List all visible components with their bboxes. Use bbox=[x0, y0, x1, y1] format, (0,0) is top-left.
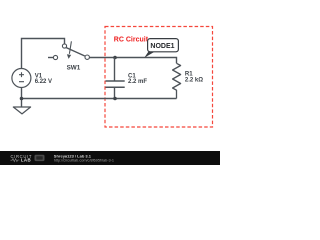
junction node bottom bbox=[113, 97, 117, 101]
pivot contact bbox=[62, 44, 66, 48]
svg-text:6.22 V: 6.22 V bbox=[35, 79, 52, 85]
ground bbox=[21, 99, 23, 107]
wire V1 bottom bbox=[21, 88, 23, 99]
left throw contact bbox=[53, 55, 57, 59]
svg-text:http://circuitlab.com/c/8f695f: http://circuitlab.com/c/8f695f/lab-3-1 bbox=[54, 158, 114, 162]
annotation box RC Circuit (red dashed) bbox=[105, 27, 213, 128]
voltage source V1 bbox=[12, 69, 31, 88]
right contact bbox=[85, 55, 89, 59]
svg-text:SW1: SW1 bbox=[67, 64, 81, 71]
junction bottom-left bbox=[20, 97, 24, 101]
junction node top bbox=[113, 56, 117, 60]
svg-text:LAB: LAB bbox=[21, 157, 31, 162]
actuator arrow bbox=[69, 41, 71, 54]
svg-text:NODE1: NODE1 bbox=[150, 43, 174, 50]
wire top-left (V1 top to switch pivot) bbox=[22, 39, 65, 69]
footer bar bbox=[0, 151, 220, 165]
svg-text:RC Circuit: RC Circuit bbox=[114, 37, 149, 44]
node label NODE1 tail bbox=[144, 51, 156, 58]
left throw stub bbox=[48, 57, 53, 59]
wire bottom rail bbox=[22, 98, 177, 100]
node label NODE1 box bbox=[148, 39, 179, 52]
wire C1 bottom bbox=[114, 87, 116, 98]
wire top rail (switch to R1) bbox=[89, 58, 176, 64]
svg-text:2.2 mF: 2.2 mF bbox=[128, 79, 147, 85]
circuitlab logo resistor zigzag bbox=[11, 159, 20, 162]
circuitlab logo icon bbox=[35, 155, 45, 161]
svg-text:2.2 kΩ: 2.2 kΩ bbox=[185, 77, 203, 83]
capacitor C1 bbox=[106, 81, 125, 87]
lever bbox=[66, 47, 85, 56]
wire C1 top bbox=[114, 58, 116, 82]
resistor R1 bbox=[173, 63, 181, 98]
switch SW1 bbox=[48, 41, 89, 59]
